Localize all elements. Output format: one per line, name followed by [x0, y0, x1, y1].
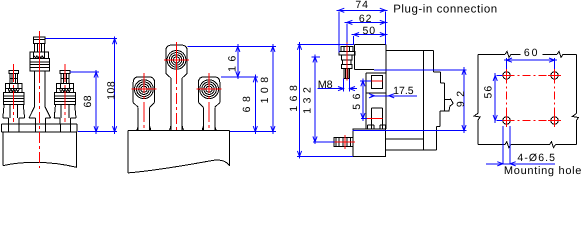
svg-text:132: 132 — [302, 83, 314, 114]
svg-text:M8: M8 — [318, 79, 333, 91]
svg-text:108: 108 — [106, 81, 118, 100]
svg-text:50: 50 — [362, 25, 376, 37]
svg-text:168: 168 — [288, 81, 300, 112]
svg-text:17.5: 17.5 — [393, 85, 414, 97]
svg-text:60: 60 — [524, 47, 540, 59]
svg-text:108: 108 — [259, 72, 271, 103]
svg-text:68: 68 — [241, 92, 253, 113]
svg-text:92: 92 — [455, 86, 467, 107]
svg-text:16: 16 — [227, 51, 239, 72]
svg-text:4-Ø6.5: 4-Ø6.5 — [517, 152, 556, 164]
svg-text:Mounting hole: Mounting hole — [504, 165, 582, 177]
svg-text:62: 62 — [359, 13, 373, 25]
svg-text:56: 56 — [351, 89, 363, 110]
svg-text:56: 56 — [483, 85, 495, 99]
svg-text:Plug-in connection: Plug-in connection — [393, 3, 498, 15]
svg-text:74: 74 — [355, 0, 369, 11]
svg-text:68: 68 — [82, 95, 94, 108]
